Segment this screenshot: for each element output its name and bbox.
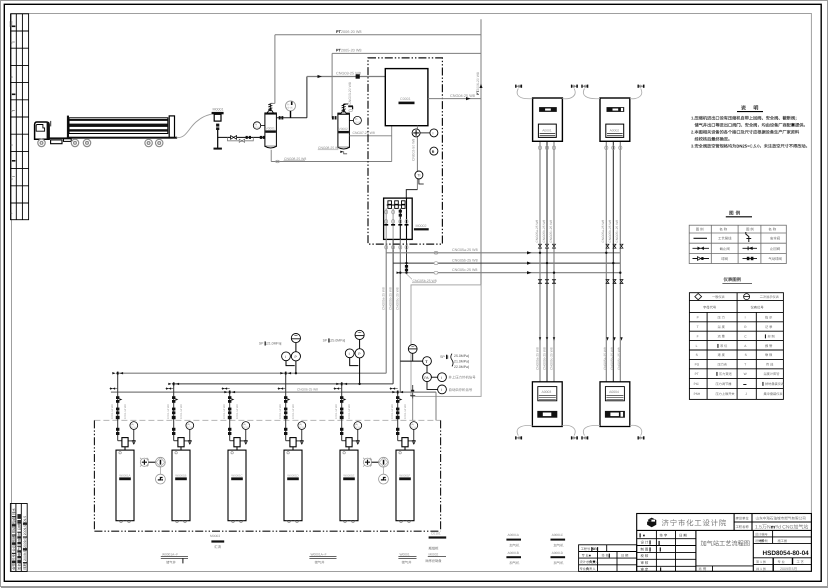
svg-text:审 核: 审 核	[641, 561, 649, 565]
staff table	[637, 530, 696, 571]
logo emblem	[647, 518, 656, 528]
svg-text:▍就地盘装仪表: ▍就地盘装仪表	[762, 381, 785, 386]
svg-text:设计阶段: 设计阶段	[755, 539, 769, 543]
compressor C0001	[385, 69, 428, 126]
distribution bus 3	[400, 272, 620, 274]
svg-text:施工图: 施工图	[778, 539, 788, 543]
svg-text:FC01-14 W8: FC01-14 W8	[292, 404, 295, 419]
hoses of bottom dispensers	[517, 425, 642, 435]
svg-text:日 期: 日 期	[621, 553, 628, 557]
dispenser A0001	[533, 98, 563, 141]
trailer tube bundle	[69, 118, 168, 134]
frame bottom tap	[412, 385, 414, 399]
bank pressure gauge tree	[291, 334, 300, 343]
svg-text:W0001D: W0001D	[287, 473, 298, 477]
storage well W0001B	[166, 383, 194, 523]
svg-text:A0001: A0001	[542, 128, 552, 132]
svg-text:T: T	[744, 363, 746, 367]
riser pipe to lower dispensers	[480, 19, 482, 285]
svg-text:汇流: 汇流	[214, 545, 221, 549]
unloading post M0001	[212, 108, 224, 150]
svg-text:W0001F: W0001F	[399, 473, 410, 477]
svg-text:FC01-14 W8: FC01-14 W8	[279, 404, 282, 419]
leader to line label	[407, 274, 413, 279]
wellhead instrument pair	[140, 457, 165, 484]
gauge PI on V0001 left	[253, 122, 260, 129]
compressor bottom ports	[416, 126, 418, 190]
svg-text:CNG07-25 W8: CNG07-25 W8	[353, 131, 375, 135]
svg-text:压力调节器: 压力调节器	[716, 382, 733, 386]
svg-text:21.0MPa|: 21.0MPa|	[454, 359, 469, 363]
top bus 1	[275, 34, 481, 36]
svg-text:W0001B: W0001B	[175, 473, 186, 477]
svg-text:F: F	[9, 212, 13, 214]
svg-text:M0002: M0002	[416, 224, 427, 228]
svg-text:2.本图相关设备的各个接口及尺寸应根据设备生产厂家资料: 2.本图相关设备的各个接口及尺寸应根据设备生产厂家资料	[691, 130, 800, 135]
gauge PI above outlet	[286, 101, 296, 111]
dispenser pipe triplet left	[540, 141, 554, 381]
svg-text:L: L	[696, 344, 698, 348]
title block	[637, 514, 812, 572]
right info cells	[753, 530, 811, 571]
svg-text:07-1D: 07-1D	[299, 426, 305, 429]
distribution bus 2	[393, 262, 620, 264]
vessel V0002	[337, 113, 350, 149]
svg-text:2009年5月: 2009年5月	[780, 566, 797, 571]
svg-text:M0001: M0001	[213, 108, 224, 112]
svg-text:CNG05b-25 W8: CNG05b-25 W8	[388, 287, 392, 310]
svg-text:A0004: A0004	[609, 390, 619, 394]
svg-text:I: I	[441, 376, 442, 380]
svg-text:FC01-14 W8: FC01-14 W8	[236, 404, 239, 419]
svg-text:S: S	[745, 353, 747, 357]
svg-text:PI: PI	[356, 423, 359, 426]
wellhead instrument pair	[363, 457, 388, 484]
svg-text:T: T	[697, 325, 699, 329]
svg-text:CNG08-25 W8: CNG08-25 W8	[318, 146, 340, 150]
svg-text:CNG05c-25 W8: CNG05c-25 W8	[452, 268, 477, 272]
svg-text:加气机: 加气机	[509, 561, 520, 565]
svg-text:CNG05a-25 W8: CNG05a-25 W8	[535, 347, 539, 370]
svg-text:V0002: V0002	[339, 127, 348, 131]
svg-text:比 例: 比 例	[699, 567, 707, 571]
svg-text:工程号▐5F/▌: 工程号▐5F/▌	[581, 547, 600, 551]
instrument bubbles on skid	[412, 129, 438, 179]
svg-text:CNG05a-25 W8: CNG05a-25 W8	[535, 220, 539, 243]
svg-text:PSH: PSH	[694, 392, 701, 396]
svg-text:W0001C: W0001C	[231, 473, 242, 477]
svg-text:联 锁: 联 锁	[765, 353, 773, 357]
valve on bypass	[239, 139, 244, 142]
svg-text:A0002: A0002	[610, 128, 620, 132]
svg-text:C0101: C0101	[431, 532, 441, 536]
svg-text:PG: PG	[695, 363, 700, 367]
svg-text:FC01-14 W8: FC01-14 W8	[223, 404, 226, 419]
svg-text:PT2006-20 W8: PT2006-20 W8	[476, 72, 480, 95]
svg-text:1.5万Nm³/d CNG加气站: 1.5万Nm³/d CNG加气站	[755, 523, 808, 530]
svg-text:图例: 图例	[729, 211, 742, 216]
storage well W0001A	[110, 372, 138, 522]
svg-text:CNG06-25 W8: CNG06-25 W8	[297, 387, 318, 391]
svg-text:CNG05c-25 W8: CNG05c-25 W8	[617, 347, 621, 370]
vessel V0001	[264, 112, 277, 148]
dispenser A0002	[600, 98, 630, 141]
svg-text:传 送: 传 送	[766, 363, 774, 367]
svg-text:PI: PI	[300, 423, 303, 426]
svg-text:I: I	[285, 355, 286, 359]
svg-text:PI: PI	[355, 118, 358, 121]
svg-text:签 名▌: 签 名▌	[602, 553, 612, 557]
tractor cab	[35, 122, 50, 139]
svg-text:CNG05b-25 W8: CNG05b-25 W8	[542, 220, 546, 243]
svg-text:温度计套管: 温度计套管	[764, 372, 780, 376]
svg-text:储气井: 储气井	[166, 560, 177, 564]
trailer bottom rail	[67, 137, 177, 139]
svg-text:专业负责人: 专业负责人	[580, 567, 597, 571]
control sub-diagram frame	[411, 285, 481, 397]
svg-text:TI: TI	[417, 174, 420, 178]
svg-text:一般仪表: 一般仪表	[712, 295, 726, 299]
unloading line to V0001	[218, 137, 265, 140]
tractor chassis	[49, 137, 67, 139]
svg-text:CNG05b-25 W8: CNG05b-25 W8	[542, 347, 546, 370]
svg-text:M0002: M0002	[429, 552, 439, 556]
svg-text:压 力: 压 力	[718, 316, 725, 320]
svg-text:CNG05b-25 W8: CNG05b-25 W8	[608, 220, 612, 243]
svg-text:工 艺: 工 艺	[797, 560, 804, 564]
dispenser A0004	[600, 382, 630, 427]
storage well W0001D	[278, 372, 306, 522]
svg-text:建设单位: 建设单位	[736, 516, 750, 520]
svg-text:球阀: 球阀	[721, 257, 728, 261]
svg-text:W0001A: W0001A	[119, 473, 130, 477]
svg-text:CNG02-50 W8: CNG02-50 W8	[412, 139, 416, 161]
bypass loop	[228, 137, 254, 140]
svg-text:W0001: W0001	[400, 552, 410, 556]
svg-text:S: S	[696, 353, 698, 357]
svg-text:FC01-14 W8: FC01-14 W8	[335, 404, 338, 419]
compressor skid enclosure (dash-dot)	[368, 58, 442, 244]
svg-text:CNG05a-25 W8: CNG05a-25 W8	[381, 287, 385, 310]
bank3 drop to cabinet	[435, 392, 437, 420]
svg-text:A0003: A0003	[542, 390, 552, 394]
svg-text:加气机: 加气机	[554, 544, 565, 548]
svg-text:07-03: 07-03	[355, 121, 361, 124]
svg-text:PT2005-20 W8: PT2005-20 W8	[336, 49, 362, 53]
V0002 side outlet to compressor port	[349, 135, 391, 137]
svg-text:07-01: 07-01	[254, 126, 260, 129]
svg-text:22.0MPa|: 22.0MPa|	[454, 365, 469, 369]
svg-text:说 明: 说 明	[741, 105, 761, 112]
svg-text:签 字: 签 字	[660, 533, 668, 537]
svg-text:CNG05c-25 W8: CNG05c-25 W8	[615, 220, 619, 243]
svg-text:校 核: 校 核	[641, 554, 649, 558]
svg-text:E: E	[9, 178, 13, 180]
svg-text:名 称: 名 称	[768, 227, 776, 231]
nozzles of top dispensers	[515, 85, 644, 88]
pressure switch tree	[408, 345, 417, 354]
svg-text:专 业■: 专 业■	[582, 553, 591, 557]
svg-text:安全阀: 安全阀	[770, 237, 781, 241]
unloading hose	[177, 114, 212, 138]
svg-text:CNG05c-25 W8: CNG05c-25 W8	[396, 287, 400, 310]
svg-text:PI: PI	[412, 423, 415, 426]
svg-text:PI: PI	[255, 123, 258, 126]
svg-text:▍液 位: ▍液 位	[717, 343, 729, 348]
svg-text:温 度: 温 度	[718, 325, 726, 329]
svg-text:图 例: 图 例	[746, 227, 754, 231]
svg-text:P: P	[697, 316, 699, 320]
svg-text:05-05: 05-05	[287, 107, 294, 110]
svg-text:工艺管线: 工艺管线	[718, 237, 732, 241]
pipe labels at lower run	[535, 347, 621, 370]
svg-text:3.安全阀放空管规格均为DN25×C,5.0，未注放空尺寸不: 3.安全阀放空管规格均为DN25×C,5.0，未注放空尺寸不得改动。	[691, 144, 810, 149]
svg-text:加气机: 加气机	[554, 561, 565, 565]
svg-text:I: I	[349, 352, 350, 356]
relief valve on V0001	[267, 103, 275, 113]
svg-text:名 称: 名 称	[719, 227, 727, 231]
bank line 2	[172, 383, 393, 385]
signature extension table	[579, 545, 637, 572]
flange pair	[246, 136, 248, 139]
svg-text:C0001: C0001	[400, 97, 411, 101]
dispenser pipe triplet right	[606, 141, 620, 381]
svg-text:V0001: V0001	[266, 127, 275, 131]
svg-text:M0003: M0003	[210, 534, 220, 538]
storage well W0001E	[334, 383, 362, 523]
svg-text:PT: PT	[695, 372, 699, 376]
legend symbols	[694, 237, 708, 239]
riser from V0001 to top bus1	[274, 35, 276, 104]
svg-text:W0001A~F: W0001A~F	[162, 552, 178, 556]
svg-text:FC01-14 W8: FC01-14 W8	[404, 404, 407, 419]
svg-text:A0001A: A0001A	[508, 533, 520, 537]
svg-text:设计编号: 设计编号	[755, 532, 768, 536]
svg-text:FC01-14 W8: FC01-14 W8	[111, 404, 114, 419]
svg-text:储气井: 储气井	[402, 560, 413, 564]
svg-text:CNG03-20 W8: CNG03-20 W8	[348, 82, 352, 104]
bank pressure gauge tree	[355, 330, 364, 339]
svg-text:CNG05b-25 W8: CNG05b-25 W8	[413, 279, 437, 283]
svg-text:07-1A: 07-1A	[131, 426, 137, 429]
svg-text:图 例: 图 例	[696, 227, 704, 231]
svg-text:PI: PI	[132, 423, 135, 426]
svg-text:共 1 张: 共 1 张	[756, 567, 767, 571]
svg-text:B: B	[9, 76, 13, 78]
svg-text:CNG08-25 W8: CNG08-25 W8	[284, 157, 306, 161]
svg-text:瓶组柜: 瓶组柜	[429, 546, 440, 550]
svg-text:PT2006-20 W8: PT2006-20 W8	[336, 30, 362, 34]
svg-text:压力表: 压力表	[718, 363, 728, 367]
manifold outlet verticals	[385, 239, 387, 373]
svg-text:CNG05a-25 W8: CNG05a-25 W8	[452, 248, 478, 252]
svg-text:速 度: 速 度	[718, 353, 726, 357]
hoses of top dispensers	[517, 89, 642, 99]
wheels	[38, 139, 163, 147]
svg-text:二次显示仪表: 二次显示仪表	[760, 295, 780, 299]
svg-text:设计总负责人: 设计总负责人	[580, 560, 600, 564]
svg-text:济宁市化工设计院: 济宁市化工设计院	[662, 519, 728, 528]
svg-text:07-1B: 07-1B	[187, 426, 193, 429]
svg-text:▍控 制: ▍控 制	[764, 333, 775, 338]
trailer front post	[67, 116, 69, 139]
bank line 3	[111, 391, 436, 393]
svg-text:▍压力变送: ▍压力变送	[716, 371, 733, 376]
svg-text:顺序控制盘: 顺序控制盘	[426, 559, 443, 563]
svg-text:经校核后最终确定。: 经校核后最终确定。	[695, 137, 733, 142]
svg-text:I: I	[745, 316, 746, 320]
svg-text:07-1E: 07-1E	[355, 426, 361, 429]
pipe labels at upper run	[535, 220, 619, 243]
V0002 drain stub	[344, 151, 347, 153]
left revision strip table	[11, 14, 29, 220]
svg-text:HSD8054-80-04: HSD8054-80-04	[763, 550, 810, 557]
V0002 inlet flanges	[332, 116, 334, 119]
drain header	[271, 126, 392, 162]
pipe fittings and junctions	[538, 146, 622, 150]
svg-text:R: R	[432, 150, 435, 154]
storage well W0001C	[222, 387, 250, 522]
svg-text:CNG05c-25 W8: CNG05c-25 W8	[549, 347, 553, 370]
dispenser A0003	[532, 382, 562, 427]
svg-text:压力上限开关: 压力上限开关	[716, 392, 736, 396]
svg-text:CNG05c-25 W8: CNG05c-25 W8	[549, 220, 553, 243]
svg-text:截止阀: 截止阀	[720, 247, 731, 251]
svg-text:止回阀: 止回阀	[770, 247, 781, 251]
svg-text:CNG05b-25 W8: CNG05b-25 W8	[452, 258, 478, 262]
svg-text:加气站工艺流程图: 加气站工艺流程图	[701, 539, 751, 547]
svg-text:专 业: 专 业	[778, 560, 785, 564]
svg-text:指 示: 指 示	[765, 316, 772, 320]
svg-text:第 1 张: 第 1 张	[756, 560, 767, 564]
relief valve on V0002	[341, 104, 347, 114]
svg-text:W0001A~F: W0001A~F	[311, 552, 327, 556]
svg-text:工程名称: 工程名称	[736, 525, 750, 529]
svg-text:仪表位号: 仪表位号	[751, 305, 765, 309]
svg-text:PIC: PIC	[694, 382, 700, 386]
svg-text:FC01-14 W8: FC01-14 W8	[391, 404, 394, 419]
gauge PI on V0002 right	[353, 116, 361, 124]
svg-text:CNG05a-25 W8: CNG05a-25 W8	[603, 347, 607, 370]
trailer rear post	[169, 116, 174, 138]
legend table	[689, 225, 786, 263]
svg-text:气动球阀: 气动球阀	[768, 257, 782, 261]
solenoid on line 4	[405, 265, 408, 268]
svg-text:字母代号: 字母代号	[703, 305, 717, 309]
V0001 outlet line	[276, 117, 307, 119]
svg-text:报 警: 报 警	[765, 344, 773, 348]
valve on unloading line	[231, 136, 237, 140]
bank line 1	[116, 372, 386, 374]
svg-text:仪表图例: 仪表图例	[723, 277, 742, 282]
svg-text:07-1C: 07-1C	[243, 426, 249, 429]
storage well W0001F	[390, 387, 418, 522]
svg-text:审 定: 审 定	[641, 567, 649, 571]
nozzles of bottom dispensers	[515, 436, 644, 439]
svg-text:FC01-14 W8: FC01-14 W8	[348, 404, 351, 419]
svg-text:PI: PI	[244, 423, 247, 426]
svg-text:07-1F: 07-1F	[411, 426, 417, 429]
svg-text:储气井出口等进出口阀门、安全阀，均由设备厂商配套提供。: 储气井出口等进出口阀门、安全阀，均由设备厂商配套提供。	[695, 123, 808, 128]
svg-text:25.0MPa|: 25.0MPa|	[454, 354, 469, 358]
svg-text:A0001C: A0001C	[552, 533, 564, 537]
svg-text:A0001D: A0001D	[552, 551, 564, 555]
svg-text:日 期: 日 期	[679, 533, 687, 537]
svg-text:1.压缩机进出口设有压缩机自带上回阀、安全阀、截断阀；: 1.压缩机进出口设有压缩机自带上回阀、安全阀、截断阀；	[691, 116, 799, 121]
svg-text:PI: PI	[188, 423, 191, 426]
svg-text:CNG05b-25 W8: CNG05b-25 W8	[610, 347, 614, 370]
storage enclosure	[94, 419, 440, 421]
svg-text:W: W	[744, 372, 747, 376]
svg-text:W0001E: W0001E	[343, 473, 354, 477]
svg-text:集中盘装仪表: 集中盘装仪表	[764, 392, 784, 396]
svg-text:加气机: 加气机	[509, 544, 520, 548]
svg-text:I: I	[433, 131, 434, 135]
bottom-left signature strip table	[10, 504, 27, 572]
solenoid valves	[388, 201, 405, 209]
svg-text:PA: PA	[424, 376, 429, 380]
compressor suction line	[307, 77, 385, 118]
priority panel M0002	[384, 198, 429, 239]
truck: CNG tube trailer	[35, 116, 178, 147]
top bus 2	[332, 52, 481, 54]
svg-text:FC01-14 W8: FC01-14 W8	[167, 404, 170, 419]
svg-text:自动启停机信号: 自动启停机信号	[449, 388, 473, 392]
svg-text:记 录: 记 录	[765, 325, 773, 329]
svg-text:井上压力停机信号: 井上压力停机信号	[449, 376, 477, 380]
dispenser callouts	[508, 533, 564, 555]
svg-text:储气井: 储气井	[315, 560, 326, 564]
bank tee valves	[112, 372, 403, 394]
distribution bus 1	[386, 252, 620, 254]
svg-text:F: F	[697, 334, 699, 338]
notes body	[691, 116, 810, 149]
svg-text:CNG04-25 W8: CNG04-25 W8	[450, 94, 475, 98]
svg-text:FC01-14 W8: FC01-14 W8	[124, 404, 127, 419]
svg-text:I: I	[441, 388, 442, 392]
svg-text:CNG05a-25 W8: CNG05a-25 W8	[601, 220, 605, 243]
compressor discharge to riser	[428, 98, 481, 100]
svg-text:A0001B: A0001B	[508, 551, 519, 555]
instrument legend table	[689, 293, 783, 400]
svg-text:FC01-14 W8: FC01-14 W8	[180, 404, 183, 419]
svg-text:山东中海石油城市燃气有限公司: 山东中海石油城市燃气有限公司	[756, 516, 807, 521]
svg-text:流 量: 流 量	[718, 334, 726, 338]
